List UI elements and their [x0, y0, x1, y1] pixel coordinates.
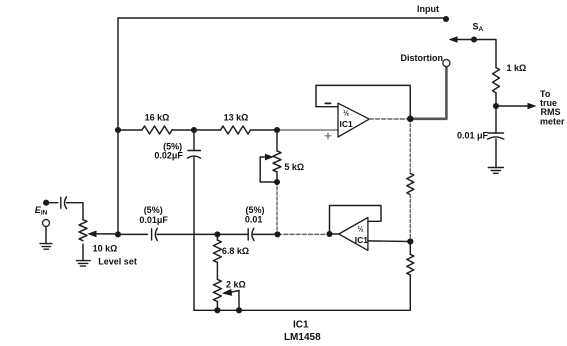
wire 5k to lower row	[276, 182, 278, 234]
wire pot to ground	[82, 244, 84, 261]
svg-text:16 kΩ: 16 kΩ	[145, 112, 170, 122]
wire divider upper	[409, 119, 411, 174]
ground 10k	[77, 261, 91, 267]
resistor 6.8k	[216, 234, 218, 240]
wiper 2k	[231, 291, 239, 311]
wire switch to 1k	[474, 40, 496, 68]
node SA	[471, 37, 477, 43]
svg-text:½: ½	[343, 110, 349, 118]
capacitor 0.01 middle	[247, 229, 249, 240]
ground EIN	[40, 244, 52, 250]
svg-text:13 kΩ: 13 kΩ	[224, 112, 249, 122]
node U1a output	[407, 116, 414, 123]
svg-text:IC1: IC1	[355, 235, 369, 245]
svg-text:0.02μF: 0.02μF	[154, 151, 183, 161]
svg-text:(5%): (5%)	[245, 205, 264, 215]
op-amp U1a feedback	[316, 85, 410, 118]
svg-text:2 kΩ: 2 kΩ	[226, 279, 246, 289]
capacitor 0.02uF	[193, 130, 195, 151]
svg-text:0.01 μF: 0.01 μF	[457, 131, 489, 141]
wire 1k to node	[495, 93, 497, 133]
node left rail main row	[115, 127, 121, 133]
svg-text:Level set: Level set	[98, 257, 137, 267]
capacitor EIN	[60, 197, 62, 208]
arrow wiper 5k	[265, 154, 274, 161]
arrow SA	[449, 36, 458, 42]
svg-text:0.01: 0.01	[245, 214, 263, 224]
label minus U1a	[325, 102, 330, 104]
wire U1b tip	[330, 233, 339, 235]
wire divider to bottom rail	[409, 242, 411, 311]
svg-text:Input: Input	[417, 4, 439, 14]
wire 6.8k to 2k	[216, 263, 218, 280]
arrow wiper 2k	[222, 289, 232, 296]
svg-text:½: ½	[358, 225, 364, 233]
op-amp U1b triangle	[339, 218, 368, 251]
wire circle to ground	[45, 227, 47, 244]
wire cap to ground	[495, 139, 497, 168]
arrow wiper 10k	[87, 231, 96, 238]
wire U1a output	[369, 118, 410, 120]
capacitor 0.01uF right	[488, 132, 504, 134]
resistor divider upper	[407, 173, 414, 194]
wire top rail	[118, 17, 446, 19]
wiper 5k	[260, 157, 277, 182]
wire to RMS meter arrow	[496, 105, 528, 107]
node 2k bottom	[214, 307, 220, 313]
wire 16k to 13k	[172, 129, 221, 131]
wire lower row	[118, 233, 278, 235]
node lower row left	[115, 231, 121, 237]
node 16k 13k	[191, 127, 197, 133]
wire 0.02uF down to bottom rail	[193, 158, 195, 311]
potentiometer 2k	[213, 279, 221, 301]
arrow to RMS	[528, 103, 537, 109]
svg-text:1 kΩ: 1 kΩ	[507, 63, 527, 73]
resistor 1k	[493, 68, 500, 93]
wire 13k to opamp plus	[251, 129, 278, 131]
wire wiper to lower row	[97, 233, 118, 235]
label plus U1a	[325, 133, 331, 139]
ground right	[488, 168, 503, 174]
wire lower row gray	[278, 233, 330, 235]
node 6.8k top	[214, 231, 220, 237]
capacitor 0.01uF left	[151, 229, 153, 240]
wire inverting input	[316, 106, 338, 108]
node EIN	[43, 200, 49, 206]
wire left rail	[117, 18, 119, 234]
wire cap to pot	[67, 203, 84, 220]
node 2k wiper	[236, 307, 242, 313]
wire divider mid	[409, 195, 411, 242]
node input	[443, 16, 449, 22]
svg-text:IC1: IC1	[340, 119, 354, 129]
svg-text:10 kΩ: 10 kΩ	[93, 244, 118, 254]
node 13k 5k	[274, 127, 280, 133]
svg-text:6.8 kΩ: 6.8 kΩ	[222, 246, 249, 256]
resistor 16k	[142, 126, 172, 134]
switch SA wiper	[457, 39, 474, 41]
terminal EIN circle	[43, 220, 50, 227]
terminal distortion circle	[443, 59, 450, 66]
svg-text:(5%): (5%)	[144, 205, 163, 215]
potentiometer 10k	[79, 220, 87, 241]
svg-text:Distortion: Distortion	[401, 53, 444, 63]
svg-text:IC1: IC1	[293, 320, 309, 331]
svg-text:0.01μF: 0.01μF	[139, 215, 168, 225]
op-amp U1b feedback	[330, 206, 382, 235]
terminal EIN wire	[46, 202, 58, 204]
wire U1b output	[368, 240, 410, 243]
node 5k lower row	[274, 231, 280, 237]
wire bottom rail	[194, 309, 410, 311]
node 5k bottom	[274, 179, 280, 185]
wire distortion thick	[410, 67, 446, 119]
op-amp U1a triangle	[338, 103, 369, 137]
potentiometer 5k	[276, 130, 278, 151]
node U1b input	[326, 231, 332, 237]
svg-text:5 kΩ: 5 kΩ	[284, 162, 304, 172]
resistor divider lower	[407, 254, 414, 275]
svg-text:LM1458: LM1458	[284, 332, 321, 343]
resistor 13k	[221, 126, 251, 134]
node RMS	[493, 103, 499, 109]
wire main row left	[118, 129, 142, 131]
node divider mid	[407, 238, 413, 244]
